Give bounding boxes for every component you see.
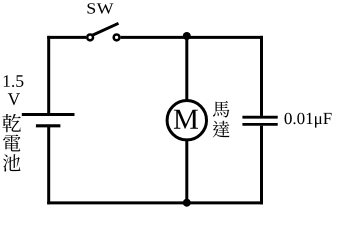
label 馬 bbox=[213, 101, 230, 117]
switch SW left contact bbox=[87, 35, 93, 41]
switch SW right contact bbox=[114, 35, 120, 41]
junction node bottom bbox=[183, 199, 191, 207]
value 1.5 bbox=[4, 75, 24, 87]
capacitor C1 top plate bbox=[242, 116, 277, 119]
label 達 bbox=[213, 121, 230, 138]
wire motor branch upper (top node down to motor) bbox=[185, 37, 188, 101]
motor letter M bbox=[174, 110, 198, 129]
wire motor branch lower (motor down to bottom node) bbox=[185, 140, 188, 203]
value 0.01uF bbox=[285, 113, 332, 128]
label SW bbox=[88, 3, 114, 14]
junction node top bbox=[183, 32, 191, 40]
switch SW blade (open) bbox=[92, 23, 119, 35]
wire right upper (top-right corner down to capacitor top plate) bbox=[260, 36, 263, 116]
wire right lower (capacitor bottom plate down to bottom-right corner) bbox=[260, 126, 263, 205]
wire left lower (battery - plate down to bottom-left corner) bbox=[47, 126, 50, 204]
motor M1 body circle bbox=[167, 101, 206, 140]
wire left upper (top-left corner down to battery + plate) bbox=[47, 36, 50, 115]
label 池 bbox=[3, 154, 21, 171]
wire top-right (switch right contact to top-right corner, through node) bbox=[121, 36, 263, 39]
battery BT negative plate (short) bbox=[36, 124, 61, 127]
battery BT positive plate (long) bbox=[22, 113, 75, 116]
capacitor C1 bottom plate bbox=[242, 123, 277, 126]
wire bottom (bottom-left corner to bottom-right corner, through node) bbox=[47, 201, 263, 204]
label 乾 bbox=[2, 114, 21, 132]
wire top-left (from top-left corner to switch left contact) bbox=[47, 36, 86, 39]
unit V bbox=[8, 93, 20, 105]
label 電 bbox=[3, 134, 20, 151]
